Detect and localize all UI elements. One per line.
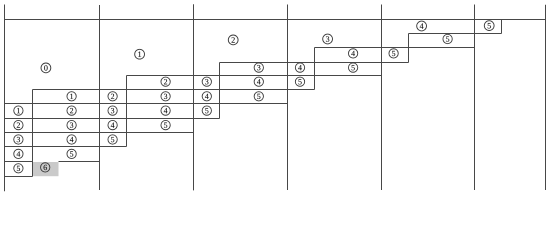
node step 3 in pass-1 left cell (108, 106, 117, 115)
node step 4 in pass-1 left cell (108, 120, 117, 129)
node step 3 in pass-0 right cell (67, 120, 76, 129)
node pass label 5 (484, 21, 494, 31)
node step 6 in shaded output cell (41, 163, 50, 172)
wire processor column line 2 (193, 4, 195, 190)
wire stair row line t7 (5, 118, 220, 120)
node step 5 in pass-3 left cell (295, 77, 304, 86)
node pass label 2 (228, 35, 238, 45)
node pass label 3 (323, 34, 333, 44)
node step 5 in pass-2 right cell (254, 92, 263, 101)
wire stair row line t5 (33, 89, 315, 91)
wire stair row line t6 (5, 103, 288, 105)
wire top boundary line (5, 19, 546, 21)
node step 5 in pass-1 right cell (161, 120, 170, 129)
wire stair edge x314 (314, 48, 316, 90)
shaded output buffer cell (33, 162, 59, 176)
node step 5 in pass-4 right cell (443, 34, 452, 43)
node step 5 in pass-4 left cell (389, 49, 398, 58)
node step 3 in pass-2 left cell (202, 77, 211, 86)
wire stair edge x409 (408, 34, 410, 63)
node step 5 in pass-1 left cell (108, 135, 117, 144)
node step 4 in pass-0 left cell (14, 149, 23, 158)
wire processor column line 5 (474, 5, 476, 191)
wire stair row line t10 left of shaded cell (5, 161, 33, 163)
node step 4 in pass-3 right cell (348, 49, 357, 58)
wire processor column line 0 (4, 5, 6, 192)
wire stair edge x501 (501, 20, 503, 34)
node step 4 in pass-2 right cell (254, 77, 263, 86)
wire stair edge x220 (219, 63, 221, 119)
wire stair row line t9 (5, 146, 127, 148)
wire box 0 bottom line (5, 176, 33, 178)
node step 5 in pass-0 right cell (67, 149, 76, 158)
node step 5 in pass-3 right cell (348, 63, 357, 72)
node step 4 in pass-1 right cell (161, 106, 170, 115)
wire stair row line t1 (409, 33, 502, 35)
wire stair edge x33 (32, 90, 34, 177)
wire processor column line 4 (381, 5, 383, 191)
wire stair row line t8 (5, 132, 194, 134)
wire stair row line t3 (220, 62, 409, 64)
node step 1 in pass-0 left cell (14, 106, 23, 115)
node step 2 in pass-1 left cell (108, 92, 117, 101)
node step 2 in pass-0 right cell (67, 106, 76, 115)
wire stair row line t2 (315, 47, 475, 49)
node step 3 in pass-2 right cell (254, 63, 263, 72)
node step 4 in pass-2 left cell (202, 92, 211, 101)
node step 1 in pass-0 right cell (67, 92, 76, 101)
wire stair row line t4 (127, 75, 382, 77)
node step 4 in pass-0 right cell (67, 135, 76, 144)
node pass label 4 (417, 21, 427, 31)
node step 5 in pass-0 left cell (14, 164, 23, 173)
node step 2 in pass-0 left cell (14, 120, 23, 129)
node step 3 in pass-1 right cell (161, 92, 170, 101)
wire stair edge x127 (126, 76, 128, 147)
wire processor column line 3 (287, 5, 289, 191)
wire stair row line t10 right of shaded cell (59, 161, 100, 163)
node step 4 in pass-3 left cell (295, 63, 304, 72)
wire processor column line 6 (545, 5, 547, 190)
node pass label 0 (41, 63, 51, 73)
node step 5 in pass-2 left cell (202, 106, 211, 115)
wire processor column line 1 (99, 5, 101, 190)
node step 3 in pass-0 left cell (14, 135, 23, 144)
node pass label 1 (135, 49, 145, 59)
node step 2 in pass-1 right cell (161, 77, 170, 86)
